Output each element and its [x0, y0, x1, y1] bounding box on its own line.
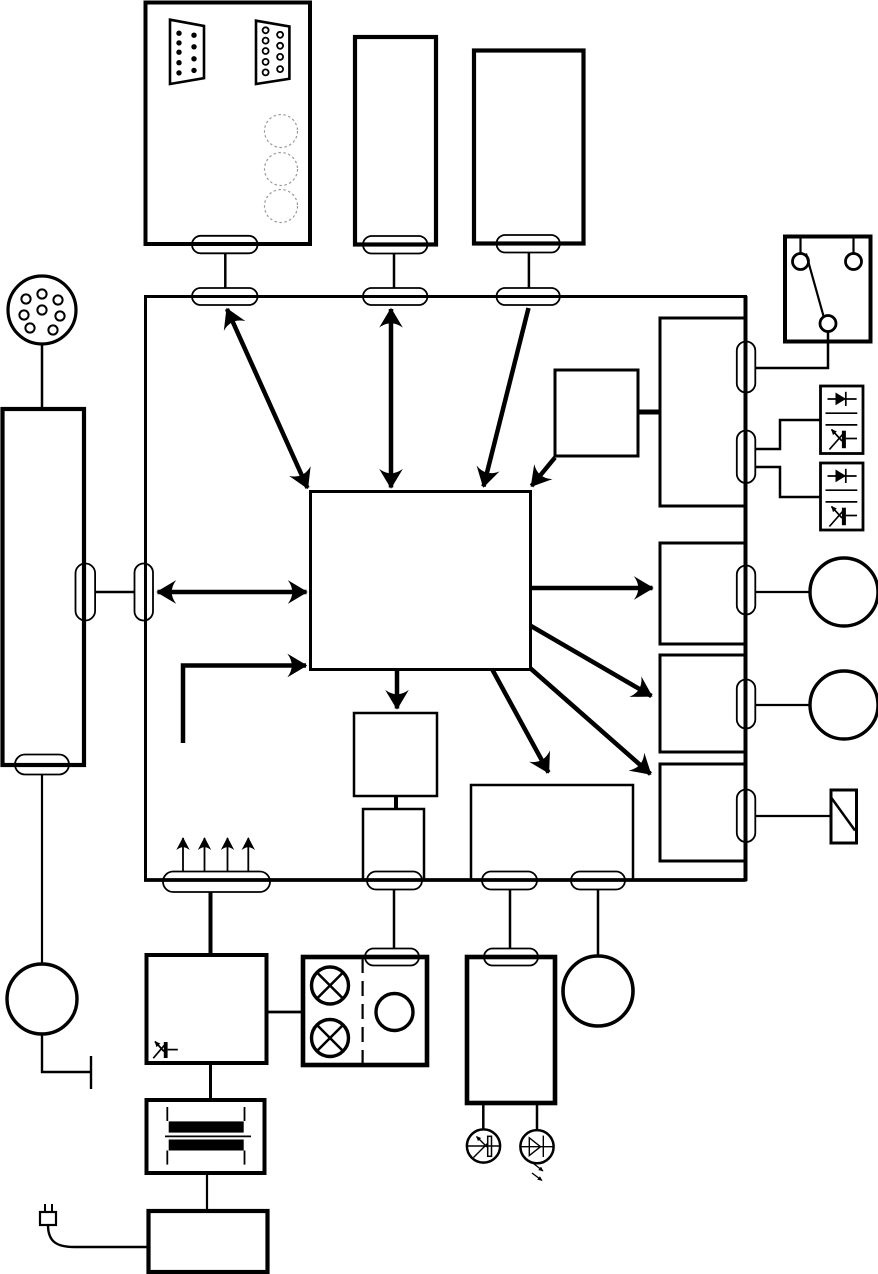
block: module B2 (top middle) [355, 37, 436, 245]
optocoupler D2 [821, 463, 864, 530]
block: S1 (below controller) [354, 713, 437, 796]
wire PSU to lamp unit [267, 1011, 304, 1014]
block: R3 [660, 764, 746, 861]
wire P2 stem [393, 254, 396, 289]
photodetector PD1 [467, 1129, 500, 1162]
bus arrow controller to P1 (double) [227, 309, 308, 488]
wires pill R0b to D1/D2 [756, 420, 820, 449]
block: handset cradle unit (top-left, with DB9 connectors) [146, 3, 311, 245]
arrow P3 to controller [484, 308, 529, 487]
wire S1 to S2 [394, 796, 398, 809]
connector J1 (DB9 male, filled pins) [170, 20, 204, 84]
block: R1 [660, 543, 746, 644]
arrow controller to R1 [532, 586, 653, 591]
block: module M (ring detect) [555, 370, 638, 456]
sounder [831, 790, 857, 843]
bell circle [563, 956, 633, 1026]
wire handset to mouthpiece [41, 775, 43, 965]
block: R2 [660, 655, 746, 752]
block: module B3 (top right) [474, 51, 584, 244]
block: S2 [363, 809, 424, 880]
port P2 (pill pair, middle) [363, 236, 427, 305]
port pills on right border [737, 342, 756, 843]
wire P1 stem [224, 253, 227, 288]
cord [48, 1225, 148, 1247]
block: hook switch SW1 [785, 237, 871, 342]
block: controller (central) [311, 492, 531, 670]
wire mic to handset [41, 344, 44, 409]
antenna arrows (4 up) [183, 838, 248, 871]
lamp L2 [312, 1020, 349, 1057]
block: battery unit [467, 957, 555, 1103]
port P3 (pill pair, right) [497, 235, 560, 305]
block: audio unit (bottom right inside) [471, 785, 633, 880]
earpiece E1 circle [810, 558, 878, 626]
block: main enclosure [146, 297, 746, 881]
block: R0 line interface (tall right) [660, 318, 746, 506]
arrow controller to R3 [530, 668, 651, 774]
wire SW1 to pill R0a [756, 332, 828, 369]
optocoupler D1 [821, 386, 864, 454]
handset side port pills [76, 564, 154, 621]
earpiece E2 circle [810, 671, 878, 739]
block: power supply unit [147, 955, 267, 1063]
elbow arrow into controller [183, 666, 306, 744]
block: lamp/indicator unit [303, 957, 427, 1065]
wire pill to pill [95, 591, 135, 594]
microphone circle (top left) [8, 276, 76, 344]
block: handset [3, 409, 85, 765]
wire M to R0 (thick) [638, 410, 661, 415]
bus arrow handset port to controller (double) [158, 590, 307, 595]
keypad buttons (dotted circles) [265, 115, 298, 223]
LED stems [482, 1103, 485, 1130]
arrow controller to audio block [492, 669, 549, 773]
wire P3 stem [528, 253, 531, 289]
lamp L1 [312, 967, 349, 1004]
block: transformer [147, 1100, 265, 1173]
LED D3 [520, 1130, 553, 1163]
indicator circle [376, 994, 413, 1031]
wires transformer [209, 1063, 212, 1100]
port P1 (pill pair, left) [192, 236, 258, 305]
handset bottom pill [15, 755, 69, 775]
photo symbol inside PSU [153, 1042, 178, 1059]
stems below enclosure [209, 892, 213, 955]
arrow module M to controller [532, 458, 556, 487]
bottom border ports (pills) [163, 872, 625, 893]
arrow controller to S1 (down) [395, 671, 400, 709]
block: AC adapter [149, 1211, 268, 1272]
arrow controller to R2 [531, 626, 652, 696]
connector J2 (DB9 female, open pins) [256, 21, 289, 84]
plug [40, 1212, 56, 1225]
bus arrow controller to P2 (double) [389, 309, 394, 488]
mouthpiece circle [7, 964, 77, 1034]
ground termination [42, 1034, 91, 1072]
